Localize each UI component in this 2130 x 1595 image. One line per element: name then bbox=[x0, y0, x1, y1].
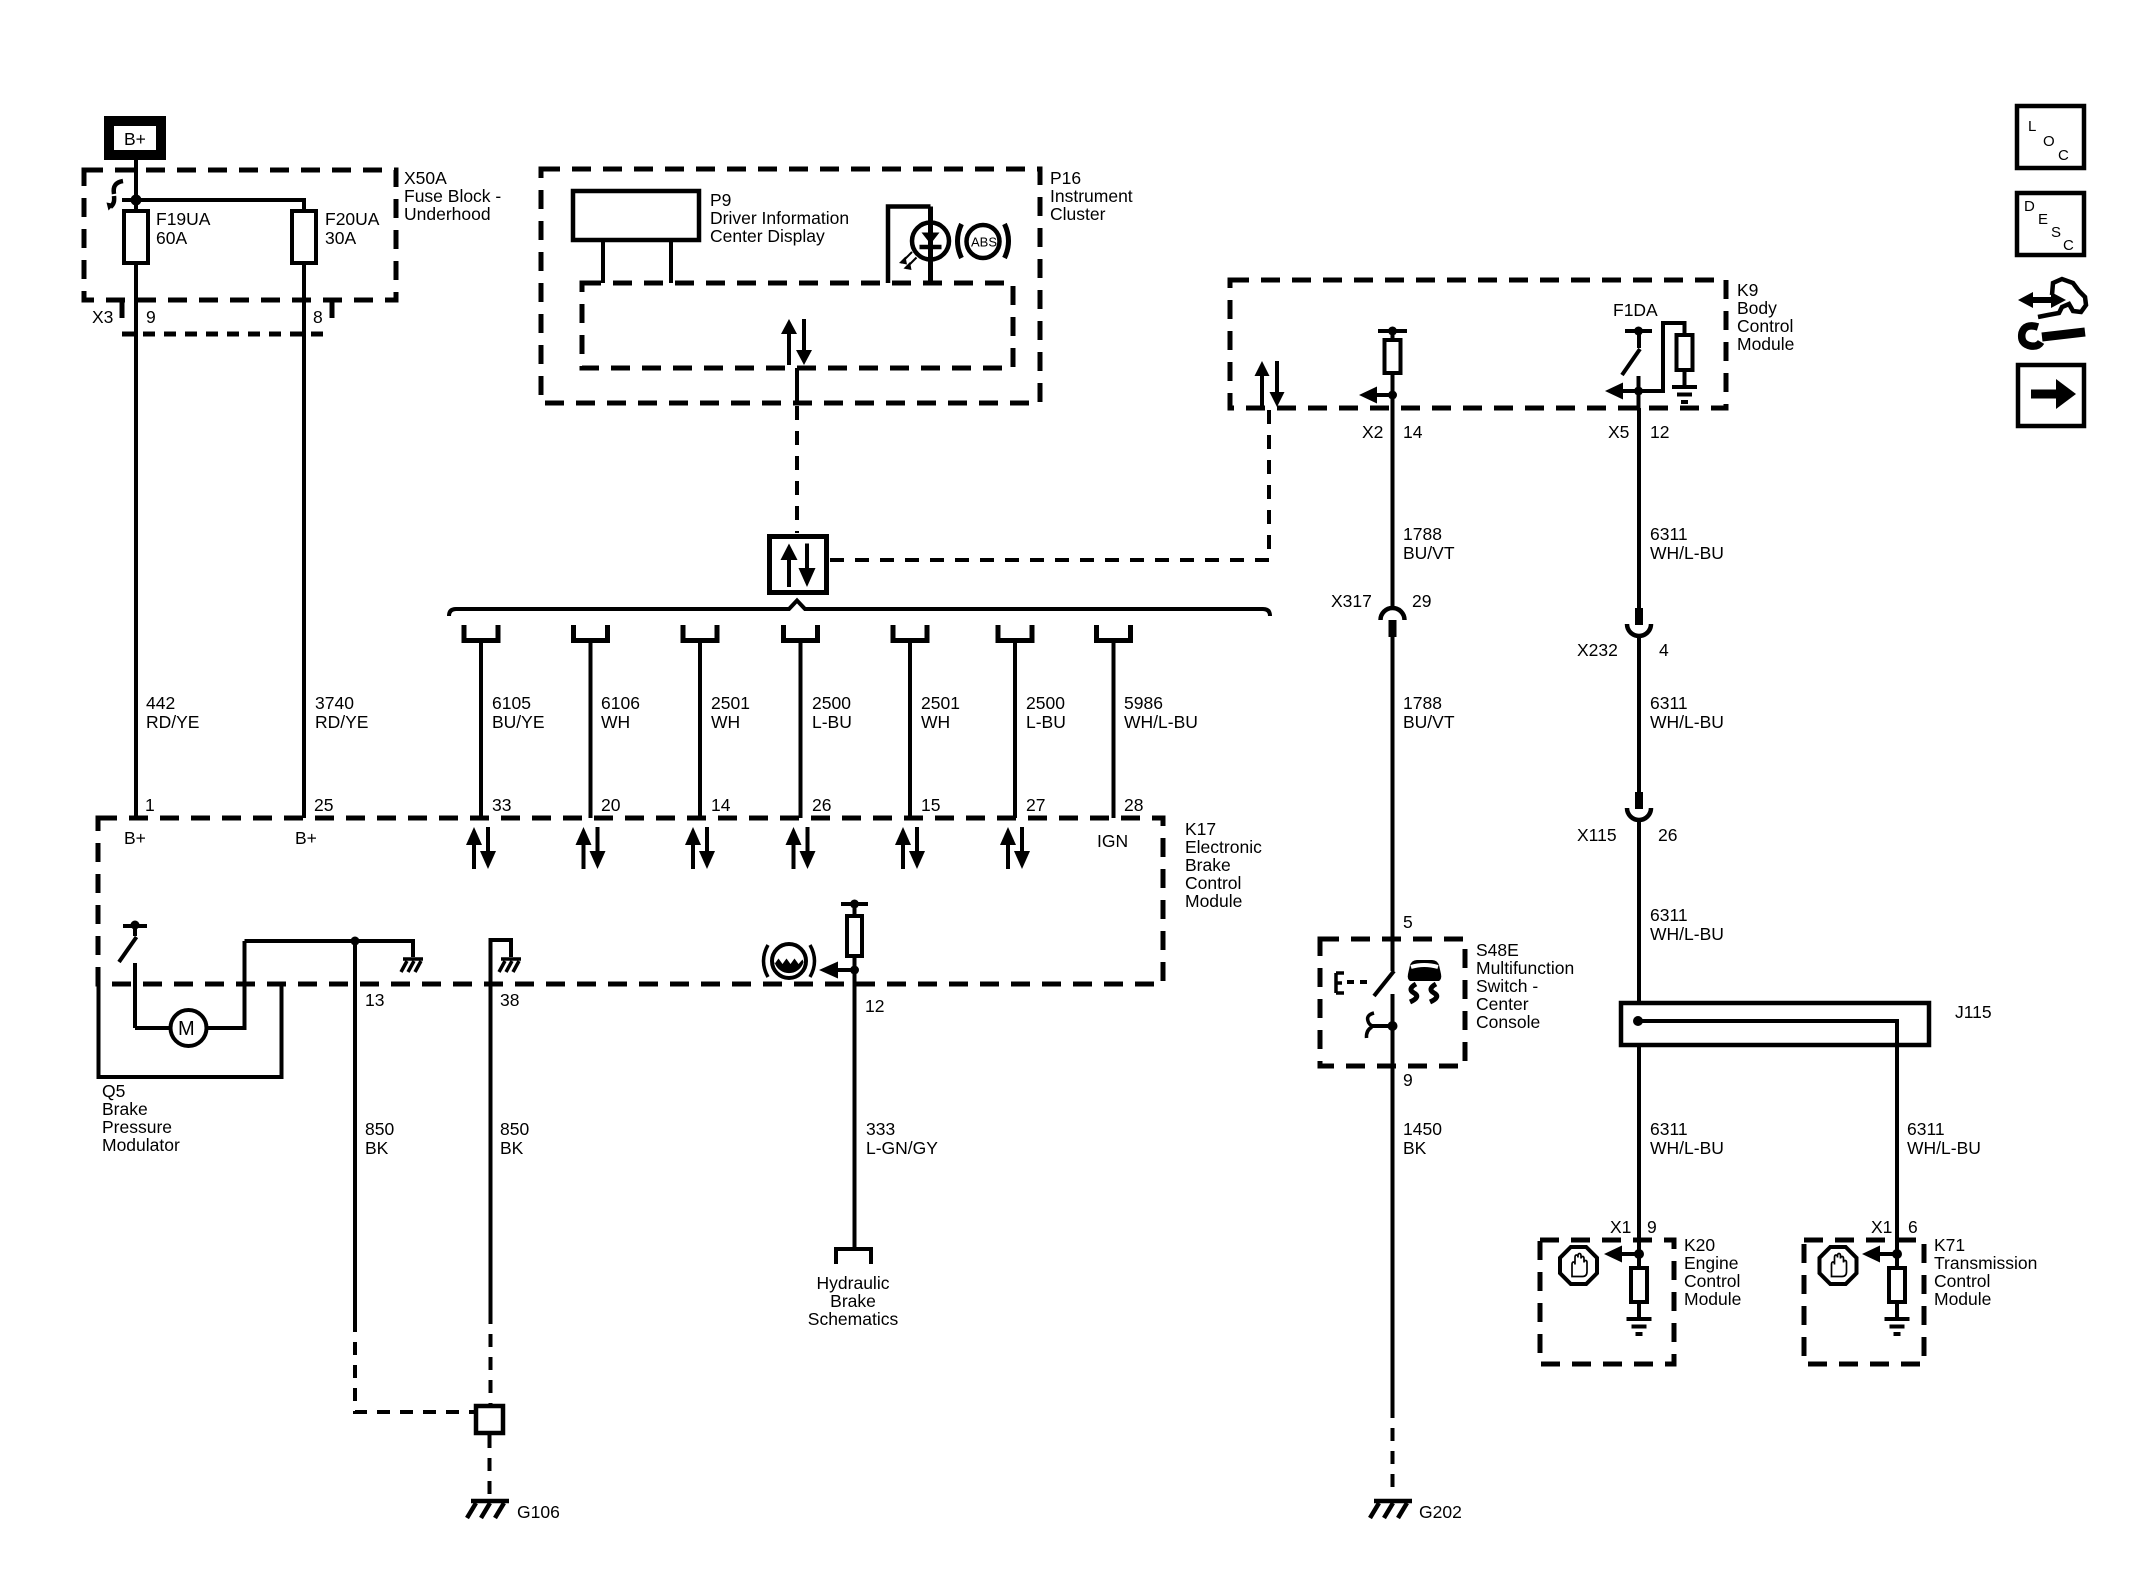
svg-text:J115: J115 bbox=[1955, 1002, 1992, 1022]
svg-text:BK: BK bbox=[1403, 1138, 1427, 1158]
svg-text:14: 14 bbox=[711, 795, 731, 815]
svg-text:Body: Body bbox=[1737, 298, 1777, 318]
svg-text:Center Display: Center Display bbox=[710, 226, 825, 246]
svg-text:WH: WH bbox=[601, 712, 630, 732]
svg-text:K9: K9 bbox=[1737, 280, 1758, 300]
svg-text:Brake: Brake bbox=[102, 1099, 148, 1119]
svg-text:RD/YE: RD/YE bbox=[315, 712, 368, 732]
svg-text:WH/L-BU: WH/L-BU bbox=[1650, 712, 1724, 732]
svg-text:5986: 5986 bbox=[1124, 693, 1163, 713]
svg-text:L-BU: L-BU bbox=[812, 712, 852, 732]
svg-text:K71: K71 bbox=[1934, 1235, 1965, 1255]
svg-text:8: 8 bbox=[313, 307, 323, 327]
svg-text:S48E: S48E bbox=[1476, 940, 1519, 960]
svg-text:5: 5 bbox=[1403, 912, 1413, 932]
svg-text:Cluster: Cluster bbox=[1050, 204, 1106, 224]
svg-text:BU/YE: BU/YE bbox=[492, 712, 545, 732]
svg-text:RD/YE: RD/YE bbox=[146, 712, 199, 732]
svg-text:14: 14 bbox=[1403, 422, 1423, 442]
svg-text:2501: 2501 bbox=[711, 693, 750, 713]
svg-text:B+: B+ bbox=[124, 828, 146, 848]
svg-text:Modulator: Modulator bbox=[102, 1135, 180, 1155]
svg-text:Module: Module bbox=[1185, 891, 1242, 911]
svg-text:3740: 3740 bbox=[315, 693, 354, 713]
svg-text:X1: X1 bbox=[1610, 1217, 1631, 1237]
svg-text:Fuse Block -: Fuse Block - bbox=[404, 186, 501, 206]
svg-text:6311: 6311 bbox=[1907, 1119, 1945, 1139]
svg-text:Console: Console bbox=[1476, 1012, 1540, 1032]
svg-text:Pressure: Pressure bbox=[102, 1117, 172, 1137]
svg-text:Control: Control bbox=[1185, 873, 1241, 893]
svg-text:F1DA: F1DA bbox=[1613, 300, 1658, 320]
svg-text:9: 9 bbox=[1647, 1217, 1657, 1237]
svg-text:33: 33 bbox=[492, 795, 511, 815]
svg-text:333: 333 bbox=[866, 1119, 895, 1139]
svg-text:30A: 30A bbox=[325, 228, 356, 248]
svg-text:9: 9 bbox=[146, 307, 156, 327]
svg-text:Module: Module bbox=[1934, 1289, 1991, 1309]
svg-text:BU/VT: BU/VT bbox=[1403, 712, 1455, 732]
svg-text:9: 9 bbox=[1403, 1070, 1413, 1090]
svg-text:Hydraulic: Hydraulic bbox=[817, 1273, 890, 1293]
svg-text:L: L bbox=[2028, 118, 2036, 135]
svg-text:20: 20 bbox=[601, 795, 621, 815]
svg-text:2501: 2501 bbox=[921, 693, 960, 713]
svg-text:4: 4 bbox=[1659, 640, 1669, 660]
svg-text:P16: P16 bbox=[1050, 168, 1081, 188]
svg-text:Underhood: Underhood bbox=[404, 204, 491, 224]
svg-text:Switch -: Switch - bbox=[1476, 976, 1538, 996]
svg-text:BK: BK bbox=[365, 1138, 389, 1158]
svg-text:M: M bbox=[178, 1018, 195, 1040]
svg-text:K17: K17 bbox=[1185, 819, 1216, 839]
svg-text:6105: 6105 bbox=[492, 693, 531, 713]
svg-text:Control: Control bbox=[1737, 316, 1793, 336]
svg-text:13: 13 bbox=[365, 990, 384, 1010]
svg-text:29: 29 bbox=[1412, 591, 1431, 611]
svg-text:Multifunction: Multifunction bbox=[1476, 958, 1574, 978]
svg-text:Instrument: Instrument bbox=[1050, 186, 1133, 206]
svg-text:12: 12 bbox=[1650, 422, 1669, 442]
svg-text:Transmission: Transmission bbox=[1934, 1253, 2037, 1273]
svg-text:G106: G106 bbox=[517, 1502, 560, 1522]
svg-text:X2: X2 bbox=[1362, 422, 1383, 442]
svg-text:S: S bbox=[2051, 224, 2061, 241]
svg-text:Schematics: Schematics bbox=[808, 1309, 899, 1329]
svg-text:F19UA: F19UA bbox=[156, 209, 211, 229]
svg-text:F20UA: F20UA bbox=[325, 209, 380, 229]
svg-text:Q5: Q5 bbox=[102, 1081, 125, 1101]
svg-text:X3: X3 bbox=[92, 307, 113, 327]
svg-text:6106: 6106 bbox=[601, 693, 640, 713]
svg-text:27: 27 bbox=[1026, 795, 1045, 815]
svg-text:26: 26 bbox=[1658, 825, 1677, 845]
svg-text:L-GN/GY: L-GN/GY bbox=[866, 1138, 938, 1158]
svg-text:O: O bbox=[2043, 133, 2055, 150]
svg-text:C: C bbox=[2063, 237, 2074, 254]
svg-text:1788: 1788 bbox=[1403, 524, 1442, 544]
svg-text:Center: Center bbox=[1476, 994, 1529, 1014]
svg-text:B+: B+ bbox=[295, 828, 317, 848]
svg-text:G202: G202 bbox=[1419, 1502, 1462, 1522]
svg-text:6311: 6311 bbox=[1650, 524, 1688, 544]
svg-text:Brake: Brake bbox=[1185, 855, 1231, 875]
svg-text:1788: 1788 bbox=[1403, 693, 1442, 713]
svg-text:K20: K20 bbox=[1684, 1235, 1715, 1255]
svg-text:Electronic: Electronic bbox=[1185, 837, 1262, 857]
svg-text:6311: 6311 bbox=[1650, 905, 1688, 925]
svg-text:6: 6 bbox=[1908, 1217, 1918, 1237]
svg-text:X1: X1 bbox=[1871, 1217, 1892, 1237]
svg-text:6311: 6311 bbox=[1650, 1119, 1688, 1139]
svg-text:C: C bbox=[2058, 147, 2069, 164]
svg-text:2500: 2500 bbox=[812, 693, 851, 713]
svg-text:WH/L-BU: WH/L-BU bbox=[1650, 543, 1724, 563]
svg-text:WH/L-BU: WH/L-BU bbox=[1650, 1138, 1724, 1158]
svg-text:442: 442 bbox=[146, 693, 175, 713]
svg-text:Driver Information: Driver Information bbox=[710, 208, 849, 228]
svg-text:WH/L-BU: WH/L-BU bbox=[1124, 712, 1198, 732]
svg-text:WH/L-BU: WH/L-BU bbox=[1907, 1138, 1981, 1158]
svg-text:ABS: ABS bbox=[971, 235, 997, 250]
svg-text:850: 850 bbox=[365, 1119, 394, 1139]
svg-text:Brake: Brake bbox=[830, 1291, 876, 1311]
svg-text:BK: BK bbox=[500, 1138, 524, 1158]
svg-text:Control: Control bbox=[1934, 1271, 1990, 1291]
svg-text:850: 850 bbox=[500, 1119, 529, 1139]
svg-text:Module: Module bbox=[1684, 1289, 1741, 1309]
svg-text:26: 26 bbox=[812, 795, 831, 815]
svg-text:X50A: X50A bbox=[404, 168, 447, 188]
svg-text:WH/L-BU: WH/L-BU bbox=[1650, 924, 1724, 944]
svg-text:P9: P9 bbox=[710, 190, 731, 210]
svg-text:X232: X232 bbox=[1577, 640, 1618, 660]
svg-text:6311: 6311 bbox=[1650, 693, 1688, 713]
svg-text:D: D bbox=[2024, 198, 2035, 215]
svg-text:28: 28 bbox=[1124, 795, 1143, 815]
svg-text:B+: B+ bbox=[124, 129, 146, 149]
svg-text:IGN: IGN bbox=[1097, 831, 1128, 851]
svg-text:X115: X115 bbox=[1577, 825, 1617, 845]
svg-text:WH: WH bbox=[711, 712, 740, 732]
svg-text:Module: Module bbox=[1737, 334, 1794, 354]
svg-text:38: 38 bbox=[500, 990, 519, 1010]
svg-text:Control: Control bbox=[1684, 1271, 1740, 1291]
svg-text:X5: X5 bbox=[1608, 422, 1629, 442]
svg-text:WH: WH bbox=[921, 712, 950, 732]
svg-text:X317: X317 bbox=[1331, 591, 1372, 611]
svg-text:Engine: Engine bbox=[1684, 1253, 1739, 1273]
svg-text:1450: 1450 bbox=[1403, 1119, 1442, 1139]
svg-text:12: 12 bbox=[865, 996, 884, 1016]
svg-text:60A: 60A bbox=[156, 228, 187, 248]
svg-text:BU/VT: BU/VT bbox=[1403, 543, 1455, 563]
svg-text:L-BU: L-BU bbox=[1026, 712, 1066, 732]
svg-text:E: E bbox=[2038, 211, 2048, 228]
svg-text:25: 25 bbox=[314, 795, 333, 815]
svg-text:1: 1 bbox=[145, 795, 155, 815]
svg-text:15: 15 bbox=[921, 795, 940, 815]
svg-text:2500: 2500 bbox=[1026, 693, 1065, 713]
